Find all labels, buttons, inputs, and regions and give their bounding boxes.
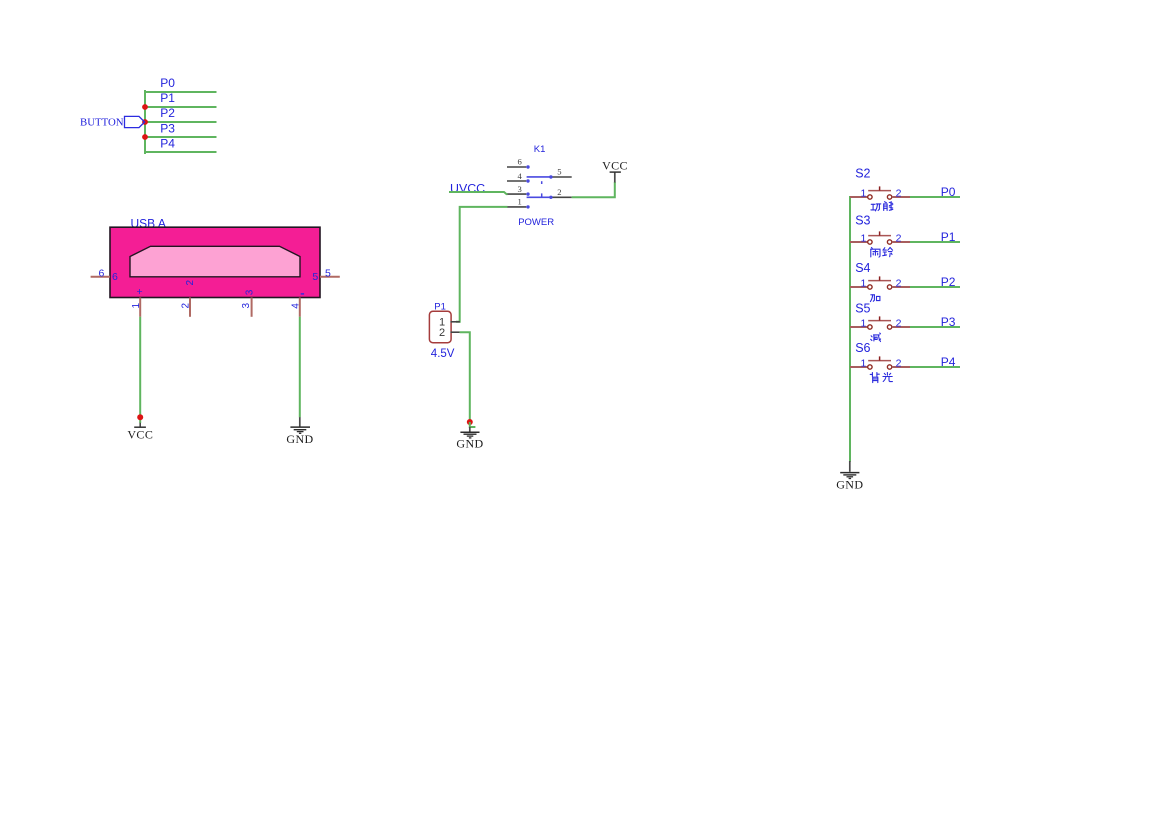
svg-text:P0: P0 (941, 185, 956, 199)
switch S3 contact 1 (868, 240, 872, 244)
wire K1 pin2 to VCC (572, 182, 615, 197)
svg-text:P4: P4 (941, 355, 956, 369)
P1 pin 1 stub (451, 321, 460, 323)
svg-text:VCC: VCC (127, 427, 153, 441)
switch S4 right stub (892, 286, 910, 288)
svg-text:BUTTON: BUTTON (80, 116, 124, 128)
switch S2 contact 2 (887, 195, 891, 199)
svg-text:GND: GND (286, 432, 313, 446)
K1 pin 4 dot (526, 179, 529, 182)
junction on P2 (142, 119, 148, 125)
switch S2 chinese caption (871, 202, 893, 211)
svg-text:+: + (137, 286, 143, 298)
power port GND3 stem (849, 461, 851, 472)
svg-text:5: 5 (312, 271, 318, 283)
wire S6 to P4 (910, 366, 960, 368)
switch S6 actuator bar (868, 360, 891, 362)
K1 pin 6 dot (526, 165, 529, 168)
K1 pin 1 dot (526, 205, 529, 208)
junction at P1 GND (467, 419, 473, 425)
switch S3 right stub (892, 241, 910, 243)
power port GND bar1 (290, 426, 310, 428)
power port GND bar4 (299, 432, 301, 434)
switch S5 contact 1 (868, 325, 872, 329)
svg-text:6: 6 (518, 157, 523, 167)
svg-text:4.5V: 4.5V (431, 348, 455, 360)
port BUTTON shape (125, 116, 145, 127)
svg-text:S6: S6 (855, 341, 870, 355)
svg-text:P3: P3 (941, 315, 956, 329)
switch S6 contact 1 (868, 365, 872, 369)
svg-text:P3: P3 (160, 121, 175, 135)
switch S3 actuator tick (879, 231, 881, 235)
switch S4 chinese caption (870, 295, 880, 302)
switch S3 left stub (850, 241, 868, 243)
wire P3 (145, 136, 216, 138)
svg-text:2: 2 (896, 277, 902, 289)
svg-text:GND: GND (456, 437, 483, 451)
switch S5 actuator bar (868, 320, 891, 322)
svg-text:1: 1 (860, 187, 866, 199)
svg-text:4: 4 (290, 303, 301, 309)
svg-text:P0: P0 (160, 76, 175, 90)
wire P0 (145, 91, 216, 93)
switch S3 contact 2 (887, 240, 891, 244)
svg-text:1: 1 (860, 277, 866, 289)
switch S2 actuator tick (879, 186, 881, 190)
svg-text:P2: P2 (941, 275, 956, 289)
wire pin1 to VCC (139, 317, 141, 423)
svg-text:5: 5 (557, 167, 561, 177)
svg-text:1: 1 (860, 357, 866, 369)
K1 pin 2 (552, 196, 572, 198)
P1 pin 2 stub (451, 331, 460, 333)
junction on P1 (142, 104, 148, 110)
pin 4 name dash (301, 293, 304, 295)
svg-text:P1: P1 (160, 91, 175, 105)
power port VCC bar (134, 426, 146, 428)
svg-text:2: 2 (896, 317, 902, 329)
svg-text:3: 3 (518, 184, 522, 194)
switch S4 left stub (850, 286, 868, 288)
svg-text:S3: S3 (855, 214, 870, 228)
svg-text:S2: S2 (855, 167, 870, 181)
svg-text:K1: K1 (534, 144, 546, 155)
svg-text:2: 2 (185, 280, 196, 286)
switch S6 contact 2 (887, 365, 891, 369)
svg-text:VCC: VCC (602, 159, 628, 173)
switch S6 chinese caption (870, 373, 892, 383)
power port GND3 bar2 (843, 474, 856, 476)
USB A inner tongue (130, 246, 300, 276)
power port GND2 bar1 (460, 431, 479, 433)
switch S5 right stub (892, 326, 910, 328)
power port GND3 bar4 (849, 478, 852, 480)
K1 bottom throw bar (527, 196, 551, 198)
pin 4 stub (299, 298, 301, 317)
wire UVCC to K1 pin3 (449, 192, 508, 194)
power port GND stem (299, 417, 301, 426)
wire P1 (145, 106, 216, 108)
K1 pin 1 (507, 206, 526, 208)
svg-text:5: 5 (325, 267, 331, 279)
power port GND2 bar4 (469, 437, 472, 439)
K1 pin 3 dot (526, 192, 529, 195)
wire P4 (145, 151, 216, 153)
svg-text:2: 2 (896, 232, 902, 244)
wire button trunk (849, 196, 851, 462)
switch S2 contact 1 (868, 195, 872, 199)
power port GND3 bar1 (840, 472, 859, 474)
connector P1 body (429, 311, 451, 342)
svg-text:P4: P4 (160, 136, 175, 150)
svg-text:6: 6 (112, 271, 118, 283)
power port GND bar2 (294, 429, 307, 431)
wire P2 (145, 121, 216, 123)
svg-text:1: 1 (860, 317, 866, 329)
svg-text:UVCC: UVCC (450, 182, 485, 196)
K1 link dash 2 (541, 193, 543, 196)
K1 pin 3 (507, 193, 526, 195)
svg-text:2: 2 (181, 303, 192, 309)
pin 3 stub (251, 298, 253, 317)
switch S3 actuator bar (868, 235, 891, 237)
svg-text:P2: P2 (160, 106, 175, 120)
switch S5 contact 2 (887, 325, 891, 329)
wire pin4 to GND (299, 317, 301, 418)
switch S5 left stub (850, 326, 868, 328)
wire S3 to P1 (910, 241, 960, 243)
svg-text:GND: GND (836, 477, 863, 491)
junction on P3 (142, 134, 148, 140)
power port VCC2 stem (614, 172, 616, 182)
switch S6 right stub (892, 366, 910, 368)
K1 pin 5 (552, 176, 572, 178)
switch S4 actuator bar (868, 280, 891, 282)
power port GND2 bar3 (467, 435, 474, 437)
svg-text:P1: P1 (941, 230, 956, 244)
switch S3 chinese caption (871, 248, 893, 258)
power port GND2 stem (469, 427, 471, 432)
svg-text:S5: S5 (855, 302, 870, 316)
pin 5 stub (320, 276, 340, 278)
K1 pin 5 dot (549, 175, 552, 178)
svg-text:1: 1 (860, 232, 866, 244)
svg-text:3: 3 (245, 289, 256, 295)
switch S4 actuator tick (879, 276, 881, 280)
svg-text:2: 2 (439, 327, 445, 339)
K1 top throw bar (527, 176, 551, 178)
pin 2 stub (189, 298, 191, 317)
svg-text:3: 3 (241, 303, 252, 309)
K1 pin 4 (507, 180, 526, 182)
svg-text:POWER: POWER (518, 217, 554, 228)
svg-text:1: 1 (518, 197, 522, 207)
wire stub below junction (470, 422, 476, 427)
BUTTON bus group (145, 91, 216, 153)
switch S2 actuator bar (868, 190, 891, 192)
connector USB A body (110, 227, 320, 297)
switch S2 right stub (892, 196, 910, 198)
power port VCC stem (139, 423, 141, 427)
wire K1 pin1 to P1 pin1 (456, 207, 508, 322)
wire S4 to P2 (910, 286, 960, 288)
switch S6 left stub (850, 366, 868, 368)
switch S4 contact 2 (887, 285, 891, 289)
K1 pin 6 (507, 166, 526, 168)
K1 pin 2 dot (549, 196, 552, 199)
pin 1 stub (139, 298, 141, 317)
svg-text:4: 4 (518, 171, 523, 181)
power port GND3 bar3 (847, 476, 854, 478)
svg-text:2: 2 (896, 187, 902, 199)
power port GND bar3 (297, 431, 304, 433)
pin 6 stub (91, 276, 110, 278)
junction at VCC (137, 414, 143, 420)
switch S4 contact 1 (868, 285, 872, 289)
K1 link dash 1 (541, 181, 543, 184)
svg-text:S4: S4 (855, 261, 870, 275)
svg-text:1: 1 (131, 303, 142, 309)
wire vertical bus (144, 91, 146, 153)
switch S6 actuator tick (879, 356, 881, 360)
svg-text:2: 2 (557, 187, 561, 197)
switch S5 chinese caption (871, 333, 881, 342)
switch S2 left stub (850, 196, 868, 198)
power port VCC2 bar (610, 171, 621, 173)
switch S5 actuator tick (879, 316, 881, 320)
svg-text:6: 6 (99, 267, 105, 279)
svg-text:2: 2 (896, 357, 902, 369)
power port GND2 bar2 (464, 433, 477, 435)
wire S5 to P3 (910, 326, 960, 328)
wire S2 to P0 (910, 196, 960, 198)
wire P1 pin2 to GND (460, 332, 470, 422)
